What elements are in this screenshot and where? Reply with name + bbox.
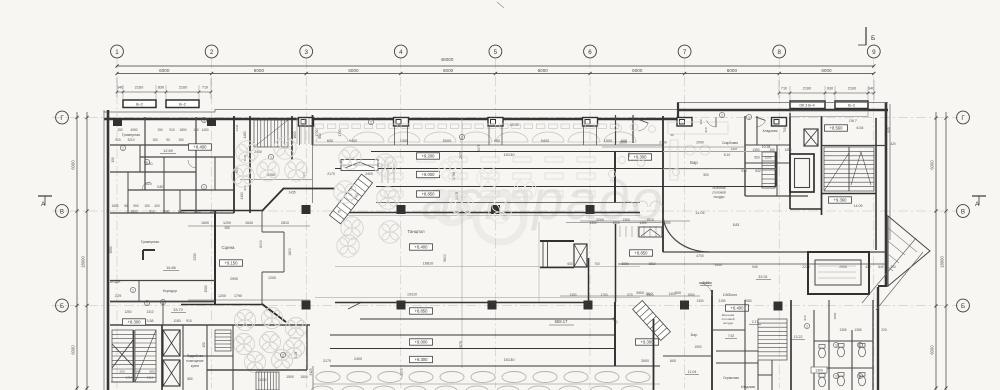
svg-text:2700: 2700 xyxy=(659,141,667,145)
svg-text:3090: 3090 xyxy=(621,262,628,266)
svg-text:5400: 5400 xyxy=(541,139,549,143)
break mark lower edge xyxy=(348,302,362,309)
outer wall left band xyxy=(107,110,110,390)
svg-text:1435: 1435 xyxy=(288,191,295,195)
corridor wall y252 xyxy=(663,251,886,253)
kitchen wall x307 xyxy=(306,325,308,370)
funnel bottom diagonal xyxy=(262,304,286,322)
row grid line Б xyxy=(52,305,958,307)
svg-text:3200: 3200 xyxy=(596,218,604,222)
svg-text:710: 710 xyxy=(202,86,208,90)
svg-text:Б: Б xyxy=(871,35,875,42)
column x778 lower row xyxy=(774,302,783,311)
funnel top diagonal xyxy=(262,188,284,211)
svg-text:1230: 1230 xyxy=(235,124,239,131)
partition y157 xyxy=(140,156,234,158)
svg-text:В–2: В–2 xyxy=(136,103,143,107)
svg-text:3900: 3900 xyxy=(641,359,649,363)
svg-text:300: 300 xyxy=(627,152,631,157)
svg-text:1700: 1700 xyxy=(600,293,607,297)
svg-text:Сервизная: Сервизная xyxy=(723,376,739,380)
shaft box 1 xyxy=(163,330,180,356)
svg-text:2975: 2975 xyxy=(400,368,404,375)
wall x745 lower xyxy=(744,300,746,390)
svg-text:1: 1 xyxy=(132,289,134,293)
engaged column x211 filled xyxy=(207,118,216,126)
svg-text:830: 830 xyxy=(158,86,164,90)
svg-text:6: 6 xyxy=(588,49,592,56)
stair lower right xyxy=(758,319,787,360)
wall y356 lower right xyxy=(663,355,712,357)
svg-text:910: 910 xyxy=(149,210,155,214)
grid bubble 6 xyxy=(584,45,597,58)
svg-text:6000: 6000 xyxy=(632,68,643,73)
svg-text:1350: 1350 xyxy=(752,148,759,152)
kitchen wall y356 xyxy=(183,355,233,357)
svg-text:6.54: 6.54 xyxy=(857,126,864,130)
svg-text:500: 500 xyxy=(703,173,709,177)
svg-text:1200: 1200 xyxy=(764,156,771,160)
elevation +8.400 right xyxy=(726,305,749,311)
svg-text:6000: 6000 xyxy=(821,68,832,73)
booth divider x495 xyxy=(489,126,502,145)
svg-text:2160: 2160 xyxy=(848,87,856,91)
svg-text:2.17: 2.17 xyxy=(752,320,759,324)
left block wall right xyxy=(233,116,235,213)
tier strip line 4 xyxy=(376,202,640,204)
svg-text:5: 5 xyxy=(494,49,498,56)
svg-text:150: 150 xyxy=(769,148,775,152)
svg-text:+9.200: +9.200 xyxy=(422,154,436,159)
exterior ramp triangle xyxy=(888,216,930,286)
grid line 3 xyxy=(305,59,307,389)
outer wall right face xyxy=(889,104,891,240)
vent shaft with X xyxy=(804,129,818,146)
elevator wall xyxy=(789,113,791,209)
svg-text:1210: 1210 xyxy=(126,376,133,380)
floor pattern center xyxy=(439,159,536,223)
svg-text:910: 910 xyxy=(803,315,807,320)
svg-text:600: 600 xyxy=(675,291,681,295)
partition x180 xyxy=(179,190,181,213)
svg-text:16.86: 16.86 xyxy=(166,266,176,270)
vestibule wall x588 xyxy=(588,258,590,302)
svg-text:2400: 2400 xyxy=(354,357,362,361)
svg-text:+8.850: +8.850 xyxy=(422,192,436,197)
svg-text:2990: 2990 xyxy=(230,277,238,281)
door tag xyxy=(719,112,724,117)
svg-text:+8.560: +8.560 xyxy=(830,126,844,131)
stair bottom-left flight2 xyxy=(135,330,156,382)
svg-text:600: 600 xyxy=(327,139,333,143)
svg-text:5000: 5000 xyxy=(443,139,451,143)
svg-text:2.29: 2.29 xyxy=(115,294,122,298)
section mark A right xyxy=(972,196,986,208)
dimension line bays xyxy=(117,73,874,75)
wall seg y268 xyxy=(540,267,574,269)
right dimension line a xyxy=(935,112,937,390)
cold room xyxy=(808,252,869,294)
svg-text:1: 1 xyxy=(162,301,164,305)
svg-text:1800: 1800 xyxy=(179,128,186,132)
svg-text:Моечная: Моечная xyxy=(712,186,725,190)
door tag xyxy=(201,117,206,122)
svg-text:1: 1 xyxy=(282,354,284,358)
wc wall x873 xyxy=(872,300,874,390)
svg-text:1900: 1900 xyxy=(687,293,694,297)
outer wall top-right face xyxy=(677,102,888,104)
booth partition x615 xyxy=(615,115,617,145)
outer wall left face xyxy=(103,110,105,390)
svg-text:1: 1 xyxy=(146,161,148,165)
svg-text:+8.400: +8.400 xyxy=(731,306,745,311)
svg-text:200: 200 xyxy=(119,370,124,374)
svg-text:Б: Б xyxy=(961,303,965,310)
bottom vertical x313 xyxy=(312,366,314,390)
svg-text:1460: 1460 xyxy=(243,131,247,138)
svg-text:А: А xyxy=(975,201,980,208)
door tag xyxy=(857,373,862,378)
door arc bar lower xyxy=(699,283,712,296)
dim line 19310 xyxy=(315,297,640,299)
svg-text:3.80: 3.80 xyxy=(157,185,164,189)
svg-text:150: 150 xyxy=(117,128,123,132)
svg-text:8: 8 xyxy=(777,49,781,56)
area underline 33.70 xyxy=(171,312,186,314)
shaft box 2 xyxy=(163,360,180,386)
partition x163 lower xyxy=(162,301,164,325)
svg-text:ОК 3 В–4: ОК 3 В–4 xyxy=(799,104,814,108)
svg-text:6000: 6000 xyxy=(259,240,263,248)
area underline 33.91 xyxy=(756,279,771,281)
booth divider x401 xyxy=(395,126,408,145)
grid bubble 5 xyxy=(489,45,502,58)
svg-text:Бар: Бар xyxy=(691,333,698,337)
svg-text:1: 1 xyxy=(146,302,148,306)
stair top-left diag xyxy=(254,120,288,147)
svg-text:1510: 1510 xyxy=(646,218,654,222)
svg-text:1790: 1790 xyxy=(234,294,242,298)
elevation +9.150 stage xyxy=(220,260,243,266)
svg-text:+9.300: +9.300 xyxy=(641,340,655,345)
svg-text:220: 220 xyxy=(881,328,887,332)
stage dim line top xyxy=(188,225,310,227)
svg-text:1640: 1640 xyxy=(245,221,253,225)
svg-text:4: 4 xyxy=(399,49,403,56)
partition x777 xyxy=(776,145,778,196)
door tag xyxy=(268,154,273,159)
garderob arcs xyxy=(622,201,662,207)
svg-text:1510: 1510 xyxy=(648,262,655,266)
svg-text:653: 653 xyxy=(754,156,760,160)
svg-text:910: 910 xyxy=(741,169,747,173)
window block B-2 left b xyxy=(166,100,199,108)
area underline 11.04 xyxy=(685,374,699,376)
svg-text:+9.300: +9.300 xyxy=(634,155,648,160)
kitchen wall x183 xyxy=(182,325,184,390)
stair bottom center xyxy=(256,372,279,390)
svg-text:Эл.щит.: Эл.щит. xyxy=(109,280,120,284)
dance floor lower edge xyxy=(335,302,590,304)
svg-text:700: 700 xyxy=(594,262,600,266)
door tag xyxy=(459,134,464,139)
svg-text:340: 340 xyxy=(117,86,123,90)
svg-text:9: 9 xyxy=(872,49,876,56)
svg-text:2170: 2170 xyxy=(323,359,331,363)
door tag xyxy=(804,323,809,328)
svg-text:+9.000: +9.000 xyxy=(415,340,429,345)
svg-text:1600: 1600 xyxy=(177,210,184,214)
steps near chevron xyxy=(382,163,394,183)
svg-text:1000: 1000 xyxy=(400,139,408,143)
svg-text:10130: 10130 xyxy=(509,123,519,127)
svg-text:посуды: посуды xyxy=(723,321,733,325)
kitchen wall y370 xyxy=(207,369,307,371)
exterior diagonal ramp lines xyxy=(862,238,923,310)
page cut mark xyxy=(497,2,504,8)
svg-text:15130: 15130 xyxy=(503,152,515,157)
partition y172 xyxy=(110,171,196,173)
svg-text:1500: 1500 xyxy=(286,375,294,379)
svg-text:6000: 6000 xyxy=(930,160,935,170)
svg-text:558.17: 558.17 xyxy=(555,319,568,324)
area underline 2.40 xyxy=(700,285,712,287)
svg-text:1: 1 xyxy=(748,116,750,120)
wall x712 lower xyxy=(711,290,713,390)
OK7 room wall xyxy=(821,145,886,147)
extension line x462 xyxy=(461,118,463,368)
svg-text:1400: 1400 xyxy=(668,292,675,296)
grid line 6 xyxy=(589,59,591,389)
svg-text:910: 910 xyxy=(704,127,708,132)
svg-text:1400: 1400 xyxy=(201,128,208,132)
svg-text:400: 400 xyxy=(154,204,160,208)
outer wall right lower xyxy=(877,287,879,390)
elevation +9.000 upper xyxy=(417,171,440,177)
grid bubble 8 xyxy=(773,45,786,58)
window block B-2 right xyxy=(835,101,868,109)
dim line lower mid xyxy=(560,295,700,297)
partition y213 xyxy=(110,212,234,214)
door tag xyxy=(368,119,373,124)
door tag xyxy=(280,352,285,357)
svg-text:710: 710 xyxy=(781,87,787,91)
svg-text:столовой: столовой xyxy=(712,191,726,195)
outer wall top-right band xyxy=(677,109,888,112)
door tag xyxy=(120,145,125,150)
svg-text:1: 1 xyxy=(370,121,372,125)
stair wall x292 xyxy=(291,116,293,160)
svg-text:8.83: 8.83 xyxy=(733,223,740,227)
svg-text:Б: Б xyxy=(60,303,64,310)
wc wall x814 xyxy=(813,310,815,390)
svg-text:910: 910 xyxy=(243,185,247,190)
svg-text:1800: 1800 xyxy=(130,210,137,214)
svg-text:1300: 1300 xyxy=(815,369,823,373)
tier strip line 3 xyxy=(376,186,776,188)
bar block left wall xyxy=(662,116,664,252)
bar thin line 1 xyxy=(663,151,776,153)
row bubble Г left xyxy=(56,111,69,124)
stair bottom-left diagonals xyxy=(112,330,156,382)
engaged column x401 xyxy=(394,118,409,127)
area underline 7.52 xyxy=(725,338,737,340)
svg-text:1200: 1200 xyxy=(223,221,231,225)
svg-text:2600: 2600 xyxy=(619,141,627,145)
svg-text:2975: 2975 xyxy=(459,151,463,159)
grid bubble 3 xyxy=(300,45,313,58)
svg-text:300: 300 xyxy=(699,119,703,124)
furniture L mark xyxy=(143,250,155,260)
grid line 4 xyxy=(400,59,402,389)
column x306 lower row xyxy=(302,301,311,310)
wc wall y368 xyxy=(814,367,873,369)
window sill right bay xyxy=(790,111,868,117)
svg-text:1365: 1365 xyxy=(854,328,861,332)
svg-text:Гримерная: Гримерная xyxy=(141,240,159,244)
wc wall x852 xyxy=(851,330,853,390)
wall pair x543 xyxy=(543,241,548,267)
svg-text:2150: 2150 xyxy=(718,299,725,303)
svg-text:880: 880 xyxy=(187,377,193,381)
door xyxy=(142,182,150,190)
svg-text:3060: 3060 xyxy=(833,312,837,319)
hall left wall x312 xyxy=(312,115,314,203)
svg-text:11.04: 11.04 xyxy=(695,211,704,215)
stage dim line bottom xyxy=(188,299,310,301)
svg-text:1800: 1800 xyxy=(288,248,292,256)
svg-text:1: 1 xyxy=(461,136,463,140)
svg-text:1: 1 xyxy=(203,119,205,123)
bar thin line 2 xyxy=(663,168,776,170)
partition x164 xyxy=(163,157,165,213)
funnel top wall xyxy=(283,188,335,190)
svg-text:1: 1 xyxy=(203,186,205,190)
elevation +8.850 mid-right xyxy=(630,250,653,256)
svg-text:910: 910 xyxy=(169,128,175,132)
svg-text:1300: 1300 xyxy=(193,210,200,214)
svg-text:А: А xyxy=(41,201,46,208)
left dimension line a xyxy=(76,112,78,390)
partition y190 xyxy=(128,189,234,191)
svg-text:Гримерная: Гримерная xyxy=(122,133,140,137)
window extension lines right xyxy=(779,80,874,100)
svg-text:13.22: 13.22 xyxy=(794,335,803,339)
partition x215 upper xyxy=(214,157,216,190)
svg-text:150: 150 xyxy=(157,128,163,132)
partition kladovaya h2 xyxy=(745,162,790,164)
svg-text:2975: 2975 xyxy=(477,144,481,151)
svg-text:6000: 6000 xyxy=(443,68,454,73)
svg-text:1500: 1500 xyxy=(300,375,308,379)
elevation +8.850 lower xyxy=(410,308,433,314)
svg-text:1180: 1180 xyxy=(173,319,180,323)
svg-text:2330: 2330 xyxy=(193,253,197,260)
outer wall right step xyxy=(878,285,887,287)
svg-text:В: В xyxy=(60,208,64,215)
svg-text:1250: 1250 xyxy=(124,310,131,314)
svg-text:3900: 3900 xyxy=(636,291,644,295)
row grid line В xyxy=(52,210,958,212)
svg-text:+8.850: +8.850 xyxy=(415,309,429,314)
door tag xyxy=(144,159,149,164)
grid line 1 xyxy=(116,59,118,389)
svg-text:5.10: 5.10 xyxy=(724,153,731,157)
wall seg y241 xyxy=(540,240,574,242)
svg-text:19310: 19310 xyxy=(407,293,417,297)
door arc bar top xyxy=(637,119,648,131)
dim line 18810 xyxy=(335,266,640,268)
svg-text:6000: 6000 xyxy=(348,68,359,73)
wc fixtures xyxy=(819,344,866,387)
svg-text:4190: 4190 xyxy=(240,192,244,199)
door arc top 1 xyxy=(707,117,716,127)
svg-text:2400: 2400 xyxy=(365,172,373,176)
svg-text:6000: 6000 xyxy=(71,160,76,170)
grid line 7 xyxy=(684,59,686,389)
engaged column x306 xyxy=(299,118,314,127)
watermark blob xyxy=(437,193,524,242)
svg-text:6000: 6000 xyxy=(930,345,935,355)
bar counter xyxy=(668,122,728,180)
engaged column x779 xyxy=(772,118,787,127)
dance floor upper edge xyxy=(335,212,640,214)
stair right diag xyxy=(824,152,871,191)
svg-text:910: 910 xyxy=(115,138,121,142)
svg-text:6000: 6000 xyxy=(538,68,549,73)
svg-text:150: 150 xyxy=(178,138,184,142)
svg-text:3.05: 3.05 xyxy=(294,352,298,359)
svg-text:50: 50 xyxy=(124,204,128,208)
svg-text:+8.400: +8.400 xyxy=(194,145,208,150)
mid dim line y222 xyxy=(566,222,662,224)
svg-text:посуды: посуды xyxy=(714,195,725,199)
engaged column x684 xyxy=(677,118,692,127)
svg-text:150: 150 xyxy=(111,157,115,163)
svg-text:7: 7 xyxy=(683,49,687,56)
stair bottom-left wall xyxy=(161,325,163,390)
svg-text:4700: 4700 xyxy=(696,254,704,258)
svg-text:2170: 2170 xyxy=(327,172,335,176)
row bubble В right xyxy=(957,205,970,218)
column x588 lower row xyxy=(584,301,593,310)
svg-text:Бар: Бар xyxy=(690,160,698,165)
floor pattern upper xyxy=(232,137,401,257)
booth partition x633 xyxy=(632,115,634,143)
svg-text:Скарбовая: Скарбовая xyxy=(722,141,738,145)
grid bubble 7 xyxy=(678,45,691,58)
svg-text:2000: 2000 xyxy=(696,141,704,145)
svg-text:150: 150 xyxy=(193,128,199,132)
svg-text:Сцена: Сцена xyxy=(222,245,236,250)
svg-text:640: 640 xyxy=(887,127,891,133)
svg-text:1: 1 xyxy=(122,147,124,151)
extension line x539 xyxy=(538,222,540,302)
wc wall x796 xyxy=(790,300,792,390)
lower tier line 2 xyxy=(330,348,615,350)
svg-text:600: 600 xyxy=(494,139,500,143)
area underline 12.89 xyxy=(160,153,176,155)
svg-text:3: 3 xyxy=(304,49,308,56)
door tag xyxy=(833,342,838,347)
stair right walls xyxy=(821,116,876,250)
door tag xyxy=(857,342,862,347)
elevation +9.360 xyxy=(829,197,852,203)
svg-text:2: 2 xyxy=(210,49,214,56)
svg-text:2995: 2995 xyxy=(839,265,847,269)
steps mid-right xyxy=(620,226,656,237)
svg-text:1730: 1730 xyxy=(338,129,342,136)
